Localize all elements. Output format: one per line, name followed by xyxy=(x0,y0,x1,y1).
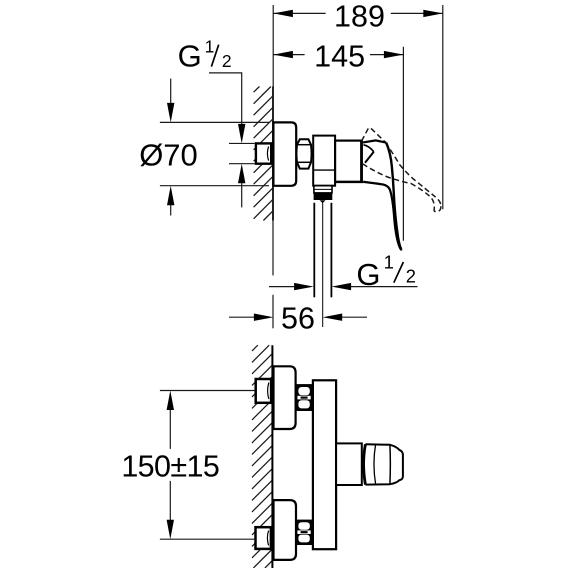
valve cartridge housing (top view) xyxy=(313,136,335,186)
mixer body plate (bottom view) xyxy=(313,380,336,549)
svg-text:56: 56 xyxy=(281,301,315,335)
shower outlet step (top view) xyxy=(314,186,332,193)
svg-text:145: 145 xyxy=(314,40,365,74)
wall hatching (top view) xyxy=(254,87,273,221)
svg-text:2: 2 xyxy=(222,51,232,71)
svg-text:G: G xyxy=(178,39,202,74)
dashed handle in open position xyxy=(362,128,441,212)
lower supply square behind wall (bottom view) xyxy=(256,527,271,549)
extension line from wall face for dims 189/145/56 xyxy=(272,5,274,87)
wall face line (bottom view) xyxy=(271,345,273,568)
svg-text:189: 189 xyxy=(334,0,385,34)
hex union nut (top view) xyxy=(296,139,311,168)
svg-text:Ø70: Ø70 xyxy=(139,138,198,173)
svg-text:150±15: 150±15 xyxy=(121,450,219,484)
lower escutcheon (bottom view) xyxy=(274,500,297,560)
svg-text:1: 1 xyxy=(205,36,215,56)
upper escutcheon (bottom view) xyxy=(274,366,296,429)
lever handle (closed position, solid) xyxy=(363,140,401,249)
label G 1/2 (supply thread, top left) xyxy=(178,36,232,73)
label G 1/2 (hose outlet, middle) xyxy=(356,251,416,292)
outlet pipe (G 1/2 hose connection, top view) xyxy=(314,203,331,327)
escutcheon / wall flange (top view, O70) xyxy=(273,122,296,185)
extension lines of union square (G 1/2 thread) xyxy=(229,143,255,163)
dimension 150+-15 xyxy=(160,391,255,540)
svg-text:2: 2 xyxy=(406,266,416,287)
lower union nut (bottom view) xyxy=(295,520,312,545)
dimension 145 xyxy=(273,47,403,241)
wall hatching (bottom view) xyxy=(252,345,272,568)
upper supply square behind wall (bottom view) xyxy=(256,379,271,403)
svg-text:1: 1 xyxy=(384,251,394,272)
wall face line (top view) xyxy=(272,87,274,329)
dimension 189 xyxy=(273,5,442,209)
handle neck (bottom view) xyxy=(336,443,362,485)
dimension O70 xyxy=(160,79,269,216)
mixer body (top view) xyxy=(334,141,364,182)
leader line of G 1/2 top left xyxy=(209,73,242,208)
black thread band of outlet xyxy=(314,193,333,200)
dimension 56 xyxy=(229,316,367,318)
supply union square behind wall (top view) xyxy=(256,143,271,163)
handle knob (bottom view) xyxy=(364,444,403,484)
pointer arrows for outlet G 1/2 xyxy=(269,286,418,288)
small drip marker under outlet xyxy=(320,200,326,203)
upper union nut (bottom view) xyxy=(295,384,312,411)
